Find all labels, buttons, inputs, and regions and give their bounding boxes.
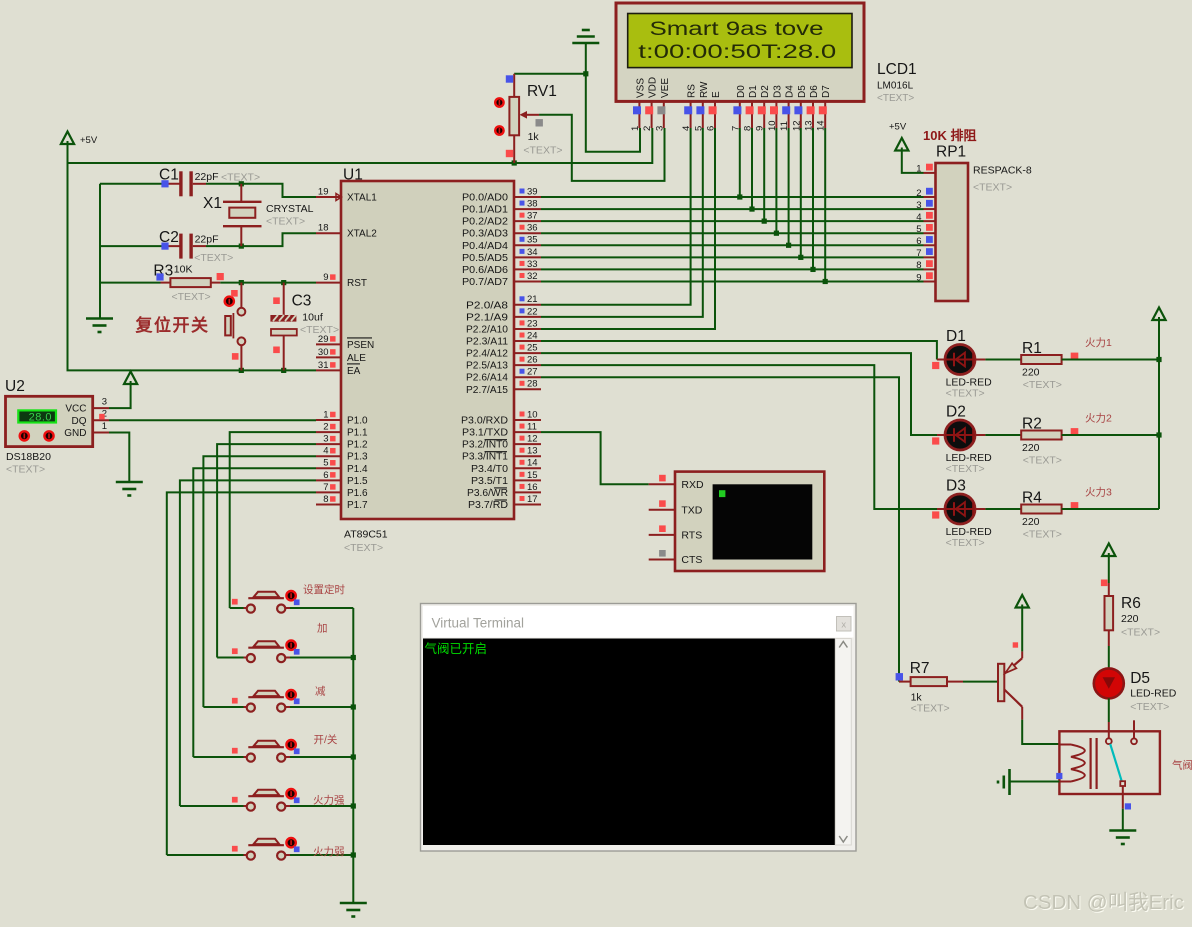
svg-text:D1: D1 <box>946 328 966 345</box>
svg-text:C3: C3 <box>292 293 312 310</box>
LCD pin stubs <box>638 101 640 128</box>
node C3 top <box>281 280 286 285</box>
svg-text:3: 3 <box>102 397 107 408</box>
wire R1 to +5V bus <box>1062 359 1159 361</box>
svg-text:<TEXT>: <TEXT> <box>946 537 985 549</box>
ground below relay <box>1109 829 1136 832</box>
svg-text:R6: R6 <box>1121 595 1141 612</box>
svg-text:15: 15 <box>527 470 538 481</box>
svg-text:PSEN: PSEN <box>347 340 374 351</box>
wire R7 to Q1 base <box>947 681 963 683</box>
U1 right pin squares and numbers <box>520 189 525 194</box>
svg-text:D3: D3 <box>772 85 783 98</box>
svg-text:<TEXT>: <TEXT> <box>523 145 562 157</box>
svg-text:复位开关: 复位开关 <box>135 315 210 335</box>
svg-text:P3.3/INT1: P3.3/INT1 <box>462 452 508 463</box>
svg-text:9: 9 <box>323 272 328 283</box>
svg-text:火力3: 火力3 <box>1085 486 1112 499</box>
svg-text:22: 22 <box>527 306 538 317</box>
svg-text:<TEXT>: <TEXT> <box>194 252 233 264</box>
terminal scrollbar <box>835 639 851 846</box>
svg-text:P3.4/T0: P3.4/T0 <box>471 464 508 475</box>
svg-text:31: 31 <box>318 360 329 371</box>
wire +5V LED bus <box>1158 325 1160 509</box>
LED D3 LED-RED <box>945 494 975 524</box>
svg-text:<TEXT>: <TEXT> <box>1023 455 1062 467</box>
svg-text:18: 18 <box>318 223 329 234</box>
svg-text:XTAL2: XTAL2 <box>347 229 377 240</box>
svg-text:XTAL1: XTAL1 <box>347 193 377 204</box>
wire RV1 top to junction <box>514 73 586 75</box>
svg-text:P1.2: P1.2 <box>347 440 368 451</box>
RV1 adjust buttons <box>495 98 503 106</box>
svg-text:P2.0/A8: P2.0/A8 <box>466 300 509 311</box>
svg-text:LCD1: LCD1 <box>877 61 917 78</box>
push button 加 <box>217 657 243 659</box>
svg-text:ALE: ALE <box>347 353 366 364</box>
wire LCD RS/RW/E to P2.0-P2.2 <box>541 128 691 305</box>
node RV1 top junction <box>583 71 588 76</box>
svg-text:Virtual Terminal: Virtual Terminal <box>432 616 525 631</box>
svg-text:1: 1 <box>916 164 921 175</box>
svg-text:D1: D1 <box>748 85 759 98</box>
svg-text:P0.2/AD2: P0.2/AD2 <box>462 217 508 228</box>
svg-text:<TEXT>: <TEXT> <box>911 703 950 715</box>
svg-text:加: 加 <box>317 623 328 635</box>
svg-text:4: 4 <box>323 446 328 457</box>
svg-text:Smart 9as tove: Smart 9as tove <box>650 19 824 40</box>
relay coil ground left <box>1008 769 1011 795</box>
node D0-D7 junctions <box>737 194 742 199</box>
power +5V transistor <box>1021 605 1023 613</box>
svg-text:37: 37 <box>527 211 538 222</box>
svg-text:P1.4: P1.4 <box>347 464 368 475</box>
wire P2.4 to D2 <box>541 353 937 435</box>
svg-text:RS: RS <box>687 84 698 98</box>
LED D5 LED-RED lit <box>1094 668 1124 698</box>
svg-text:38: 38 <box>527 198 538 209</box>
svg-text:D6: D6 <box>809 85 820 98</box>
ground below U2 <box>116 481 143 484</box>
U1 right pin stubs <box>513 196 541 198</box>
wire R2 to +5V bus <box>1062 434 1159 436</box>
svg-text:EA: EA <box>347 366 361 377</box>
potentiometer RV1 <box>513 74 515 97</box>
svg-text:21: 21 <box>527 294 538 305</box>
wire R6 to D5 <box>1108 630 1110 646</box>
svg-text:<TEXT>: <TEXT> <box>6 464 45 476</box>
svg-text:R1: R1 <box>1022 340 1042 357</box>
U2 pin stubs and numbers <box>93 407 109 409</box>
svg-text:+5V: +5V <box>889 122 907 133</box>
svg-text:D0: D0 <box>736 85 747 98</box>
wire ground column left <box>99 184 101 318</box>
svg-text:10: 10 <box>527 409 538 420</box>
svg-text:LED-RED: LED-RED <box>1130 688 1177 700</box>
svg-text:<TEXT>: <TEXT> <box>877 93 914 104</box>
svg-text:10K 排阻: 10K 排阻 <box>923 128 976 143</box>
svg-text:D2: D2 <box>946 404 966 421</box>
svg-text:设置定时: 设置定时 <box>303 583 345 596</box>
wire R3 to RST pin9 <box>220 282 316 284</box>
svg-text:4: 4 <box>916 212 921 223</box>
push button 开/关 <box>193 756 243 758</box>
svg-text:25: 25 <box>527 342 538 353</box>
svg-text:P1.5: P1.5 <box>347 476 368 487</box>
svg-text:RESPACK-8: RESPACK-8 <box>973 165 1032 177</box>
svg-text:TXD: TXD <box>681 504 702 516</box>
relay pole contact <box>1106 738 1112 744</box>
svg-text:P2.1/A9: P2.1/A9 <box>466 312 509 323</box>
crystal X1 <box>240 184 242 201</box>
svg-text:22pF: 22pF <box>195 234 219 246</box>
wire D1 to R1 <box>975 359 985 361</box>
node VDD rail junction <box>512 160 517 165</box>
resistor pack RP1 RESPACK-8 <box>936 163 969 301</box>
svg-text:P2.4/A12: P2.4/A12 <box>466 349 508 360</box>
resistor R4 220 <box>1021 505 1061 514</box>
svg-text:RV1: RV1 <box>527 83 557 100</box>
terminal pins <box>649 483 675 485</box>
svg-text:5: 5 <box>323 458 328 469</box>
svg-text:P3.2/INT0: P3.2/INT0 <box>462 440 508 451</box>
wire relay common to ground <box>1122 786 1124 809</box>
push button 火力强 <box>180 805 244 807</box>
svg-text:DS18B20: DS18B20 <box>6 451 51 463</box>
svg-text:RST: RST <box>347 278 367 289</box>
svg-text:35: 35 <box>527 235 538 246</box>
node C3 bottom rail <box>281 368 286 373</box>
svg-text:3: 3 <box>323 434 328 445</box>
power +5V main rail <box>67 141 69 149</box>
svg-text:火力强: 火力强 <box>313 794 345 807</box>
power +5V U2 VCC <box>130 381 132 389</box>
svg-text:11: 11 <box>527 421 537 432</box>
wire R4 to +5V bus <box>1062 508 1159 510</box>
wire D3 to R4 <box>975 508 985 510</box>
wire U2 GND to ground <box>109 433 129 482</box>
wire LCD D0-D7 drops to P0 bus <box>739 128 741 197</box>
svg-text:P3.0/RXD: P3.0/RXD <box>461 416 508 427</box>
reset push switch <box>240 283 242 308</box>
svg-text:CRYSTAL: CRYSTAL <box>266 203 314 215</box>
push button 火力弱 <box>167 854 244 856</box>
svg-text:22pF: 22pF <box>195 171 219 183</box>
svg-text:E: E <box>711 91 722 98</box>
svg-text:<TEXT>: <TEXT> <box>973 182 1012 194</box>
svg-text:VCC: VCC <box>65 404 86 415</box>
transistor Q1 PNP <box>998 664 1004 701</box>
power +5V R6 <box>1108 553 1110 561</box>
wire RV1 wiper to LCD VEE <box>539 115 664 181</box>
wires P1.1-P1.6 to buttons bus <box>230 432 316 608</box>
svg-text:VDD: VDD <box>648 77 659 98</box>
svg-text:P1.0: P1.0 <box>347 416 368 427</box>
U2 adjust buttons <box>20 431 29 440</box>
svg-text:P2.2/A10: P2.2/A10 <box>466 324 508 335</box>
ground top (LCD VSS / RV1) <box>572 42 599 45</box>
svg-text:<TEXT>: <TEXT> <box>300 324 339 336</box>
svg-text:16: 16 <box>527 482 538 493</box>
node D2 bus junction <box>1156 432 1161 437</box>
svg-text:RTS: RTS <box>681 530 702 542</box>
svg-text:CTS: CTS <box>681 554 702 566</box>
svg-text:32: 32 <box>527 271 538 282</box>
svg-text:10uf: 10uf <box>302 312 323 324</box>
relay NC contact <box>1133 720 1135 738</box>
svg-text:LM016L: LM016L <box>877 81 914 92</box>
svg-text:13: 13 <box>527 446 538 457</box>
svg-text:RP1: RP1 <box>936 144 966 161</box>
wire C2 to XTAL2 pin18 <box>206 233 316 246</box>
wire D5 to relay pole <box>1108 698 1110 722</box>
power +5V LED bus <box>1158 317 1160 325</box>
wire +5V to RP1 pin1 <box>902 156 924 173</box>
svg-text:火力弱: 火力弱 <box>313 845 345 858</box>
wire D2 to R2 <box>975 434 985 436</box>
wire U2 VCC to +5V <box>109 389 131 408</box>
svg-text:19: 19 <box>318 186 329 197</box>
svg-text:2: 2 <box>642 126 653 131</box>
node crystal bottom <box>239 244 244 249</box>
U2 display 28.0 <box>18 410 56 422</box>
svg-text:P3.6/WR: P3.6/WR <box>467 488 508 499</box>
svg-text:33: 33 <box>527 259 538 270</box>
svg-text:<TEXT>: <TEXT> <box>172 291 211 303</box>
LED D1 LED-RED <box>945 345 975 375</box>
virtual terminal window <box>421 604 857 852</box>
svg-text:7: 7 <box>323 482 328 493</box>
temperature sensor U2 DS18B20 body <box>6 396 93 446</box>
svg-text:AT89C51: AT89C51 <box>344 529 388 541</box>
resistor R6 220 <box>1105 596 1114 630</box>
svg-text:开/关: 开/关 <box>314 733 338 746</box>
svg-text:减: 减 <box>315 686 326 698</box>
svg-text:27: 27 <box>527 367 538 378</box>
U1 XTAL1 arrow <box>336 194 342 201</box>
wire P2.3 to D1 <box>541 341 937 359</box>
svg-text:P1.3: P1.3 <box>347 452 368 463</box>
svg-text:8: 8 <box>323 494 328 505</box>
node reset switch top <box>239 280 244 285</box>
svg-text:1k: 1k <box>528 131 540 143</box>
svg-text:P0.5/AD5: P0.5/AD5 <box>462 253 508 264</box>
relay core <box>1089 738 1091 789</box>
svg-text:P2.7/A15: P2.7/A15 <box>466 385 508 396</box>
wire transistor collector to relay coil <box>1021 707 1023 720</box>
push button 设置定时 <box>230 607 244 609</box>
svg-text:P2.5/A13: P2.5/A13 <box>466 361 508 372</box>
svg-text:39: 39 <box>527 186 538 197</box>
wire P0.0-P0.7 rows to RP1 <box>541 196 924 198</box>
svg-text:P3.1/TXD: P3.1/TXD <box>462 428 508 439</box>
svg-text:P0.7/AD7: P0.7/AD7 <box>462 277 508 288</box>
svg-text:220: 220 <box>1022 442 1040 454</box>
ground left column <box>86 317 113 320</box>
resistor R2 220 <box>1021 431 1061 440</box>
svg-text:<TEXT>: <TEXT> <box>1023 379 1062 391</box>
svg-text:8: 8 <box>916 260 921 271</box>
svg-text:1: 1 <box>102 421 107 432</box>
svg-text:17: 17 <box>527 494 538 505</box>
svg-text:P0.6/AD6: P0.6/AD6 <box>462 265 508 276</box>
power +5V RP1 <box>901 148 903 156</box>
wire U2 DQ to P1.0 <box>109 419 316 421</box>
svg-text:23: 23 <box>527 318 538 329</box>
svg-text:6: 6 <box>323 470 328 481</box>
svg-text:GND: GND <box>64 428 86 439</box>
svg-text:6: 6 <box>916 236 921 247</box>
wire P2.5 to D3 <box>541 365 937 509</box>
resistor R3 <box>100 282 161 284</box>
node button bus junctions <box>351 655 356 660</box>
svg-text:220: 220 <box>1022 516 1040 528</box>
svg-text:2: 2 <box>916 188 921 199</box>
LCD screen <box>628 14 852 68</box>
svg-text:D5: D5 <box>797 85 808 98</box>
svg-text:220: 220 <box>1121 613 1139 625</box>
svg-text:P2.6/A14: P2.6/A14 <box>466 373 508 384</box>
svg-text:P0.4/AD4: P0.4/AD4 <box>462 241 508 252</box>
wire P3.1/TXD to terminal RXD <box>541 432 649 484</box>
svg-text:U1: U1 <box>343 167 363 184</box>
svg-text:D3: D3 <box>946 478 966 495</box>
svg-text:14: 14 <box>527 458 538 469</box>
svg-text:1: 1 <box>323 409 328 420</box>
wire +5V rail to VDD and EA loop <box>68 149 317 370</box>
svg-text:RXD: RXD <box>681 479 704 491</box>
svg-text:P0.0/AD0: P0.0/AD0 <box>462 193 508 204</box>
svg-text:U2: U2 <box>5 378 25 395</box>
resistor R1 220 <box>1021 355 1061 364</box>
svg-text:<TEXT>: <TEXT> <box>1130 701 1169 713</box>
svg-text:P1.6: P1.6 <box>347 488 368 499</box>
svg-text:DQ: DQ <box>72 416 87 427</box>
svg-text:<TEXT>: <TEXT> <box>1121 627 1160 639</box>
svg-text:火力2: 火力2 <box>1085 412 1112 425</box>
svg-text:P0.3/AD3: P0.3/AD3 <box>462 229 508 240</box>
svg-text:RW: RW <box>699 81 710 98</box>
svg-text:<TEXT>: <TEXT> <box>946 463 985 475</box>
svg-text:36: 36 <box>527 223 538 234</box>
svg-text:+5V: +5V <box>80 135 98 146</box>
U1 left pin stubs <box>316 196 342 198</box>
svg-text:10K: 10K <box>174 263 193 275</box>
wire C1 to XTAL1 pin19 <box>206 184 316 197</box>
svg-text:VSS: VSS <box>635 78 646 98</box>
svg-text:30: 30 <box>318 347 329 358</box>
svg-text:<TEXT>: <TEXT> <box>946 388 985 400</box>
svg-text:P3.7/RD: P3.7/RD <box>468 500 508 511</box>
svg-text:D7: D7 <box>821 85 832 98</box>
svg-text:P2.3/A11: P2.3/A11 <box>466 337 508 348</box>
node reset switch bottom rail <box>239 368 244 373</box>
svg-text:火力1: 火力1 <box>1085 336 1112 349</box>
relay moving contact square <box>1120 781 1125 786</box>
svg-text:R2: R2 <box>1022 416 1042 433</box>
svg-text:24: 24 <box>527 330 538 341</box>
wire transistor emitter to +5V <box>1021 613 1023 652</box>
capacitor C3 electrolytic <box>283 283 285 315</box>
capacitor C1 <box>100 183 163 185</box>
svg-text:t:00:00:50T:28.0: t:00:00:50T:28.0 <box>638 42 836 63</box>
node D1 bus junction <box>1156 357 1161 362</box>
svg-text:3: 3 <box>916 200 921 211</box>
wire ground stem to VSS/RV1 junction <box>586 43 640 152</box>
svg-text:D4: D4 <box>785 85 796 98</box>
svg-text:7: 7 <box>916 248 921 259</box>
LCD LCD1 body <box>616 3 864 101</box>
svg-text:P1.7: P1.7 <box>347 500 368 511</box>
svg-text:9: 9 <box>916 272 921 283</box>
resistor R7 1k <box>899 681 911 683</box>
relay body <box>1059 731 1160 794</box>
svg-text:D2: D2 <box>760 85 771 98</box>
svg-text:R4: R4 <box>1022 490 1042 507</box>
svg-text:VEE: VEE <box>660 78 671 98</box>
svg-text:26: 26 <box>527 355 538 366</box>
svg-text:X1: X1 <box>203 195 222 212</box>
svg-text:3: 3 <box>654 126 665 131</box>
capacitor C2 <box>100 245 163 247</box>
svg-text:28.0: 28.0 <box>29 412 52 424</box>
virtual terminal component body <box>675 472 824 571</box>
svg-text:<TEXT>: <TEXT> <box>1023 529 1062 541</box>
node crystal top <box>239 181 244 186</box>
svg-text:R7: R7 <box>910 660 930 677</box>
svg-text:1: 1 <box>630 126 641 131</box>
wire button common bus to ground <box>352 608 354 902</box>
svg-text:P3.5/T1: P3.5/T1 <box>471 476 508 487</box>
svg-text:<TEXT>: <TEXT> <box>266 216 305 228</box>
svg-text:气阀: 气阀 <box>1172 759 1192 772</box>
svg-text:CSDN @叫我Eric: CSDN @叫我Eric <box>1023 891 1184 914</box>
relay coil <box>1059 744 1071 746</box>
svg-text:P0.1/AD1: P0.1/AD1 <box>462 205 508 216</box>
wire +5V to R6 <box>1108 561 1110 583</box>
svg-text:D5: D5 <box>1130 670 1150 687</box>
ground below buttons <box>340 902 367 905</box>
relay switch arm <box>1110 744 1121 781</box>
svg-text:12: 12 <box>527 434 538 445</box>
push button 减 <box>203 706 243 708</box>
svg-text:P1.1: P1.1 <box>347 428 368 439</box>
microcontroller U1 AT89C51 body <box>341 181 514 519</box>
svg-text:气阀已开启: 气阀已开启 <box>425 641 488 656</box>
svg-text:220: 220 <box>1022 367 1040 379</box>
svg-text:34: 34 <box>527 247 538 258</box>
svg-text:<TEXT>: <TEXT> <box>344 542 383 554</box>
svg-text:x: x <box>841 619 846 630</box>
svg-text:2: 2 <box>323 421 328 432</box>
svg-text:28: 28 <box>527 379 538 390</box>
svg-text:5: 5 <box>916 224 921 235</box>
terminal console area <box>423 639 835 846</box>
LED D2 LED-RED <box>945 420 975 450</box>
wire P2.6 to R7 <box>541 377 899 681</box>
LCD pin marker squares <box>633 106 641 114</box>
